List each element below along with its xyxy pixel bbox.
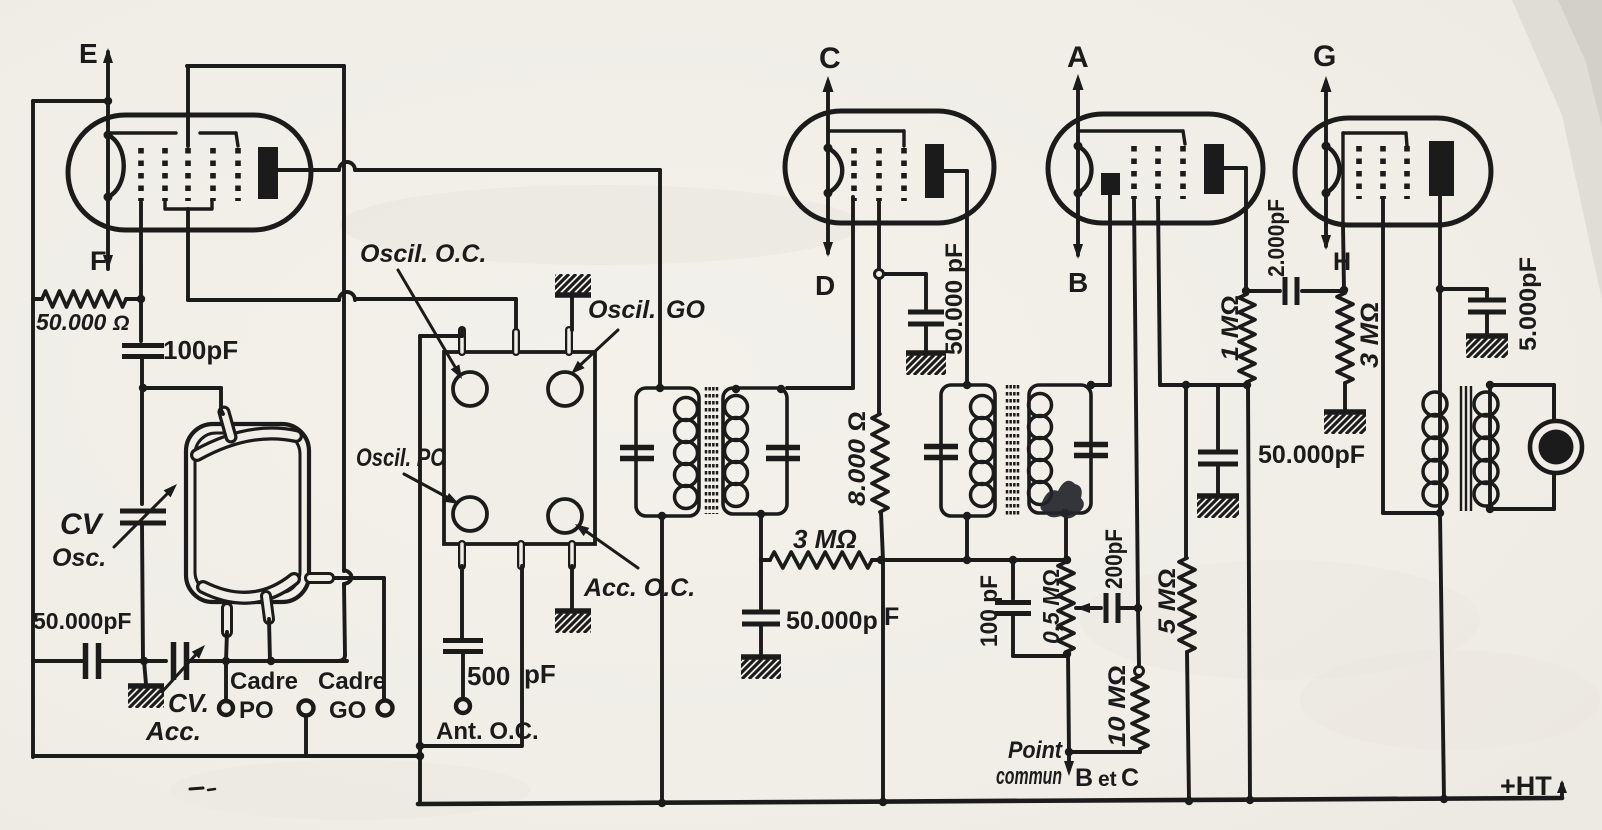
- svg-text:A: A: [1067, 41, 1089, 74]
- svg-text:F: F: [884, 603, 899, 631]
- svg-text:E: E: [79, 38, 98, 69]
- svg-text:3 MΩ: 3 MΩ: [793, 524, 857, 554]
- svg-text:GO: GO: [666, 296, 705, 324]
- svg-text:50.000p: 50.000p: [786, 607, 878, 635]
- svg-text:GO: GO: [329, 697, 366, 724]
- svg-text:CV.: CV.: [168, 688, 209, 718]
- svg-text:50.000pF: 50.000pF: [33, 608, 131, 634]
- svg-text:50.000 pF: 50.000 pF: [941, 243, 968, 355]
- svg-text:100 pF: 100 pF: [976, 575, 1003, 647]
- svg-text:0,5 MΩ: 0,5 MΩ: [1038, 569, 1064, 644]
- svg-text:3 MΩ: 3 MΩ: [1356, 302, 1384, 368]
- svg-text:5.000pF: 5.000pF: [1515, 257, 1542, 351]
- svg-text:C: C: [819, 42, 841, 75]
- svg-text:Ant. O.C.: Ant. O.C.: [436, 718, 539, 745]
- svg-text:CV: CV: [60, 508, 105, 541]
- svg-text:Cadre: Cadre: [230, 668, 298, 695]
- svg-text:50.000: 50.000: [36, 309, 107, 335]
- svg-text:100pF: 100pF: [163, 335, 238, 365]
- svg-text:200pF: 200pF: [1101, 529, 1128, 589]
- svg-text:commun: commun: [996, 763, 1062, 790]
- svg-text:Oscil. O.C.: Oscil. O.C.: [360, 240, 486, 268]
- svg-text:+HT: +HT: [1500, 771, 1552, 801]
- svg-text:pF: pF: [524, 659, 556, 689]
- svg-text:2.000pF: 2.000pF: [1263, 199, 1289, 277]
- svg-text:10 MΩ: 10 MΩ: [1104, 665, 1131, 747]
- svg-text:B: B: [1068, 267, 1088, 298]
- svg-text:5 MΩ: 5 MΩ: [1154, 568, 1181, 634]
- svg-text:et: et: [1098, 768, 1117, 791]
- svg-text:G: G: [1313, 40, 1336, 73]
- svg-text:F: F: [90, 246, 107, 276]
- svg-text:500: 500: [467, 661, 510, 691]
- svg-text:Cadre: Cadre: [318, 668, 386, 695]
- svg-text:1 MΩ: 1 MΩ: [1217, 295, 1244, 361]
- svg-text:Ω: Ω: [112, 312, 129, 335]
- svg-text:Acc.: Acc.: [145, 716, 201, 746]
- svg-text:Acc. O.C.: Acc. O.C.: [583, 574, 695, 602]
- svg-text:D: D: [815, 270, 835, 301]
- svg-text:Oscil. PO: Oscil. PO: [356, 444, 446, 472]
- svg-text:50.000pF: 50.000pF: [1258, 441, 1365, 469]
- svg-text:PO: PO: [239, 697, 274, 724]
- svg-text:Osc.: Osc.: [52, 544, 106, 572]
- svg-text:Oscil.: Oscil.: [588, 296, 656, 324]
- svg-text:Point: Point: [1008, 737, 1063, 764]
- svg-text:B: B: [1075, 764, 1093, 792]
- svg-text:C: C: [1121, 764, 1139, 792]
- svg-text:8.000 Ω: 8.000 Ω: [844, 411, 871, 506]
